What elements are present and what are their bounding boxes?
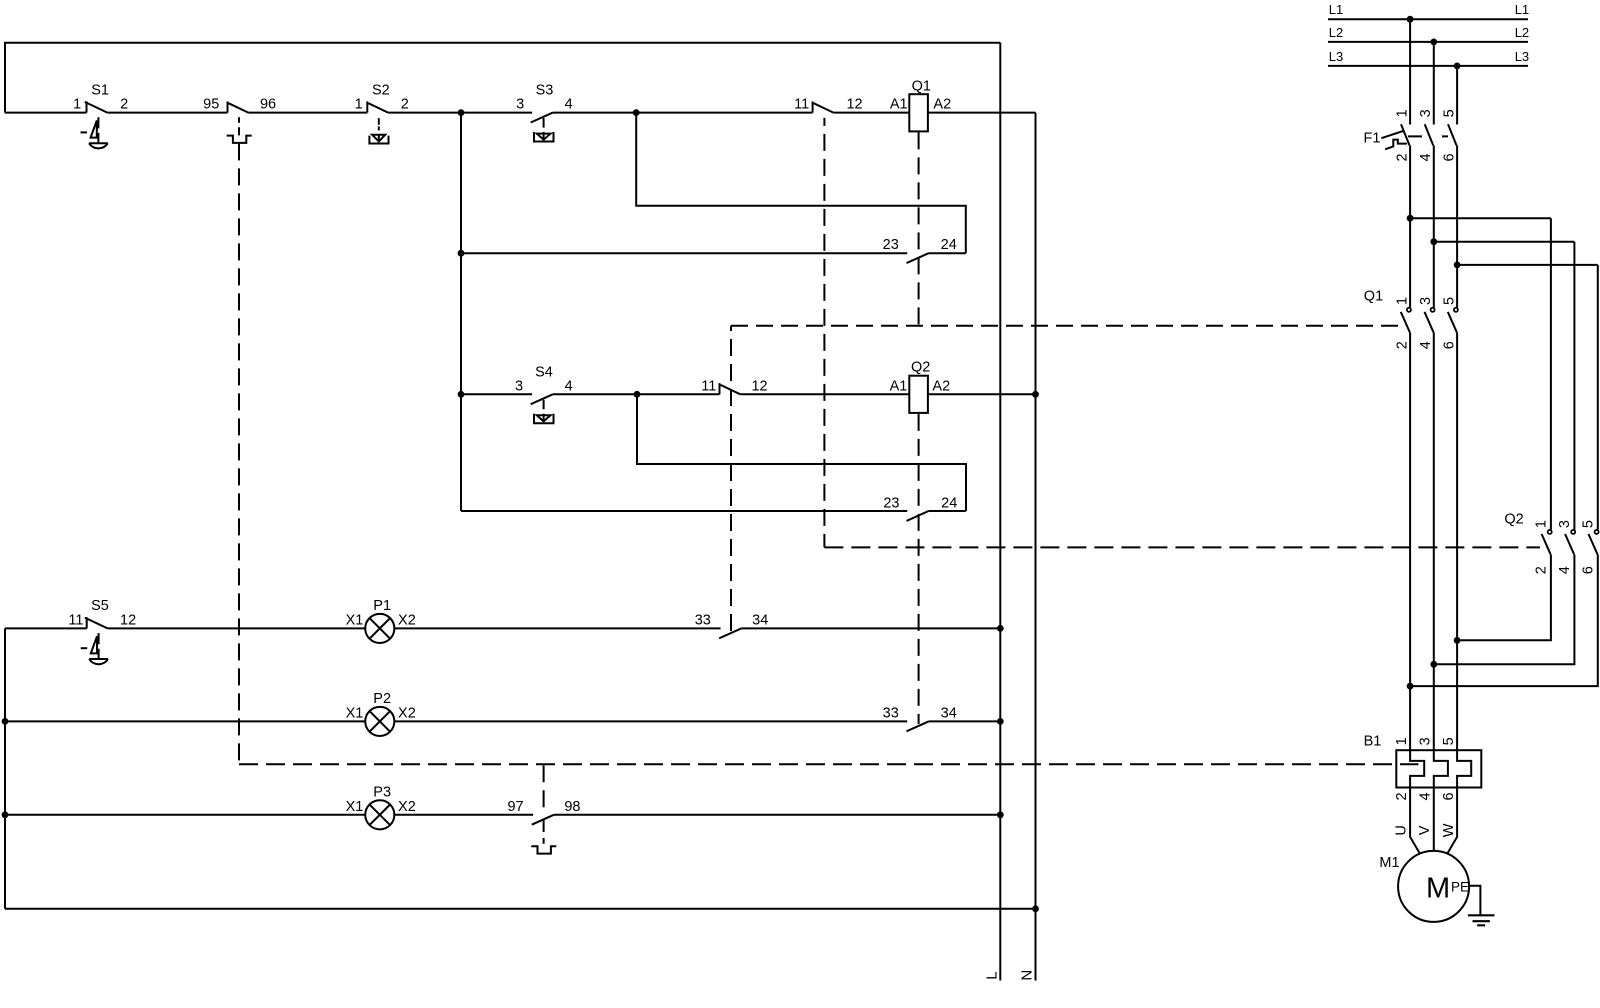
svg-text:X2: X2 [398, 612, 416, 628]
junction rail 1 / vertical bus [458, 109, 465, 116]
svg-text:4: 4 [565, 378, 573, 394]
wire N vertical conductor (control supply N) [1035, 113, 1037, 981]
svg-text:4: 4 [1418, 153, 1434, 161]
svg-text:6: 6 [1441, 153, 1457, 161]
svg-text:A1: A1 [890, 378, 908, 394]
svg-text:6: 6 [1442, 341, 1458, 349]
svg-text:3: 3 [1557, 520, 1573, 528]
svg-text:X2: X2 [398, 799, 416, 815]
wire bottom return rail to N [5, 908, 1036, 910]
svg-text:1: 1 [1395, 297, 1411, 305]
wire rail P2 from lamp to contact Q2 33-34 [394, 720, 907, 722]
svg-text:4: 4 [1557, 566, 1573, 574]
junction rail 1 / latch branch [633, 109, 640, 116]
svg-text:L2: L2 [1515, 25, 1529, 40]
junction bus / rail 2 [458, 391, 465, 398]
svg-text:11: 11 [701, 378, 716, 394]
svg-text:2: 2 [1394, 792, 1410, 800]
mechanical link dashes from contact 95-96 down to thermal symbol [238, 117, 240, 135]
contactor Q2 main contact pole 1 [1548, 530, 1552, 534]
svg-text:M: M [1426, 873, 1450, 905]
junction rail P1 / L conductor [997, 625, 1004, 632]
wire control rail 2 from bus to S4 [461, 393, 532, 395]
junction rail P3 / L conductor [997, 811, 1004, 818]
svg-text:11: 11 [794, 97, 809, 113]
wire from 23-24 blade to latch feed corner [929, 252, 966, 254]
wire L3 drop to breaker F1 pole 3 [1456, 66, 1458, 125]
wire Q1 pole 2 output down to overload B1 [1433, 332, 1435, 750]
junction reversing link phase swap on pole 1 [1407, 683, 1414, 690]
junction rail 2 / latch branch [634, 391, 641, 398]
svg-text:4: 4 [565, 97, 573, 113]
svg-text:2: 2 [401, 97, 409, 113]
wire Q2 pole 1 output crossing to Q1 phase 3 [1457, 555, 1551, 641]
overload relay B1 heater pole 1 [1410, 750, 1424, 787]
wire control rail 1 segment from left frame to S1 [5, 112, 87, 114]
wire motor lead V [1433, 788, 1435, 852]
svg-text:Q1: Q1 [912, 79, 931, 95]
junction branch to Q2 phase 3 [1454, 262, 1461, 269]
thermal overload symbol under 95-96 [227, 136, 252, 143]
svg-text:2: 2 [1534, 566, 1550, 574]
wire branch phase 3 across to Q2 feeder [1457, 264, 1598, 266]
contactor Q1 main contact pole 2 [1431, 308, 1435, 312]
svg-text:2: 2 [1394, 153, 1410, 161]
svg-text:23: 23 [883, 495, 899, 511]
junction reversing link on pole 3 [1454, 637, 1461, 644]
svg-text:33: 33 [883, 705, 899, 721]
svg-text:X2: X2 [398, 705, 416, 721]
contactor Q2 main contact pole 3 [1595, 530, 1599, 534]
emergency lamp switch S5 (NC contact 11-12) [86, 617, 88, 628]
wire Q2 latch feed from rail 2 junction down and across to contact 23-24 [637, 394, 966, 511]
auxiliary NO contact Q2 23-24 (self holding) [907, 511, 929, 521]
svg-text:1: 1 [1534, 520, 1550, 528]
svg-text:M1: M1 [1379, 855, 1399, 871]
wire rail 1 from S2 to junction at bus x=461 [388, 112, 532, 114]
junction rail P2 / L conductor [997, 718, 1004, 725]
breaker F1 thermal release symbol [1385, 140, 1407, 150]
svg-text:5: 5 [1441, 737, 1457, 745]
wire motor PE to earth [1469, 886, 1480, 916]
contactor coil Q2 [909, 376, 928, 413]
wire rail 2 from 11-12 to coil Q2 A1 [740, 393, 909, 395]
supply line L2 [1328, 41, 1528, 43]
wire Q2 pole 2 output to Q1 phase 2 [1434, 555, 1575, 665]
svg-text:3: 3 [515, 378, 523, 394]
svg-text:L1: L1 [1329, 2, 1343, 17]
svg-text:S5: S5 [91, 598, 109, 614]
wire motor lead W [1447, 788, 1457, 854]
wire Q1 pole 3 output down to overload B1 [1456, 332, 1458, 750]
svg-text:V: V [1417, 825, 1433, 835]
svg-text:S3: S3 [536, 83, 554, 99]
wire rail 1 from S1 to overload contact 95-96 [107, 112, 227, 114]
junction left bus / rail P2 [2, 718, 9, 725]
junction reversing link on pole 2 [1430, 661, 1437, 668]
svg-text:5: 5 [1442, 297, 1458, 305]
svg-text:98: 98 [564, 799, 580, 815]
junction bottom rail / N conductor [1032, 905, 1039, 912]
svg-text:33: 33 [695, 612, 711, 628]
svg-text:12: 12 [120, 612, 136, 628]
auxiliary NO contact Q1 23-24 (self holding) [907, 253, 929, 263]
svg-text:5: 5 [1441, 109, 1457, 117]
svg-text:2: 2 [1395, 341, 1411, 349]
svg-text:P3: P3 [373, 785, 391, 801]
junction L2 tap [1430, 39, 1437, 46]
junction L1 tap [1407, 16, 1414, 23]
wire Q1 pole 1 output down to overload B1 [1409, 332, 1411, 750]
svg-text:24: 24 [941, 495, 957, 511]
contactor Q2 main contact pole 2 [1571, 530, 1575, 534]
wire L1 drop to breaker F1 pole 1 [1409, 19, 1411, 124]
svg-text:PE: PE [1451, 880, 1469, 895]
svg-text:P2: P2 [373, 691, 391, 707]
junction L3 tap [1454, 63, 1461, 70]
mechanical link dashed from Q1 contacts across and down to 11-12 and 33-34 [731, 326, 1400, 631]
svg-text:4: 4 [1418, 341, 1434, 349]
overload relay B1 body [1396, 750, 1481, 787]
svg-text:5: 5 [1581, 520, 1597, 528]
svg-text:4: 4 [1418, 792, 1434, 800]
svg-text:X1: X1 [346, 799, 364, 815]
svg-text:1: 1 [355, 97, 363, 113]
svg-text:S4: S4 [535, 364, 553, 380]
wire rail P3 from 97-98 to L conductor [554, 814, 1001, 816]
svg-text:3: 3 [1418, 737, 1434, 745]
wire rail P1 from lamp to contact Q1 33-34 [394, 627, 720, 629]
overload relay B1 heater pole 3 [1457, 750, 1471, 787]
wire rail 2 from coil Q2 A2 to N conductor [928, 393, 1036, 395]
mechanical link dashed line from thermal symbol down and right to overload relay B1 [238, 143, 240, 764]
svg-text:1: 1 [1394, 737, 1410, 745]
svg-text:W: W [1441, 823, 1457, 837]
svg-text:L1: L1 [1515, 2, 1529, 17]
wire L vertical conductor (control supply L) [999, 43, 1001, 981]
svg-text:A2: A2 [932, 378, 950, 394]
wire rail P2 from 33-34 to L conductor [929, 720, 1001, 722]
auxiliary NO contact Q1 33-34 [719, 628, 741, 638]
mechanical link dashed from coil Q1 down to its contacts [918, 132, 920, 325]
wire rail 1 from 95-96 to stop button S2 [248, 112, 367, 114]
wire F1 pole 1 output down to Q1 pole 1 [1409, 145, 1411, 307]
svg-text:B1: B1 [1364, 733, 1382, 749]
supply line L1 [1328, 18, 1528, 20]
wire rail P3 from lamp to overload contact 97-98 [394, 814, 533, 816]
svg-text:Q1: Q1 [1364, 288, 1383, 304]
wire lamp rail P3 from left bus to lamp P3 [5, 814, 365, 816]
svg-text:S1: S1 [91, 83, 109, 99]
wire lamp rail P1 from left bus to S5 [5, 627, 87, 629]
svg-text:X1: X1 [346, 705, 364, 721]
svg-text:12: 12 [846, 97, 862, 113]
wire L phase feed: left frame from rail 1 up and across the top to the L down-conductor [5, 43, 1000, 113]
motor protection breaker F1 pole 1 blade [1401, 124, 1410, 145]
start pushbutton S4 (NO contact 3-4) [531, 394, 553, 404]
auxiliary NO contact Q2 33-34 [907, 721, 929, 731]
breaker F1 pole 3 blade [1448, 124, 1457, 145]
svg-text:L2: L2 [1329, 25, 1343, 40]
wire branch phase 1 across to Q2 feeder [1410, 217, 1551, 219]
svg-text:34: 34 [752, 612, 768, 628]
svg-text:S2: S2 [372, 83, 390, 99]
mechanical link dashes from B1 link line down through 97-98 to thermal symbol [543, 765, 545, 810]
wire lamp rail P2 from left bus to lamp P2 [5, 720, 365, 722]
svg-text:3: 3 [1418, 109, 1434, 117]
svg-text:6: 6 [1441, 792, 1457, 800]
svg-text:Q2: Q2 [1504, 511, 1523, 527]
interlock NC contact Q2 11-12 in Q1 coil circuit [812, 101, 814, 112]
junction branch to Q2 phase 1 [1407, 215, 1414, 222]
wire left bus for lamp rails [4, 628, 6, 908]
svg-text:12: 12 [751, 378, 767, 394]
svg-text:F1: F1 [1364, 130, 1381, 146]
indicator lamp P1 [365, 614, 394, 643]
contactor coil Q1 [909, 94, 928, 131]
contactor Q1 main contact pole 3 [1454, 308, 1458, 312]
junction bus / 23-24 line [458, 250, 465, 257]
junction left bus / rail P3 [2, 811, 9, 818]
svg-text:3: 3 [1418, 297, 1434, 305]
svg-text:Q2: Q2 [911, 360, 930, 376]
wire rail 1 from coil Q1 A2 to N conductor [928, 112, 1036, 114]
wire L2 drop to breaker F1 pole 2 [1433, 42, 1435, 125]
wire rail 2 from S4 to interlock contact Q1 11-12 [553, 393, 720, 395]
overload relay B1 NC contact 95-96 [227, 101, 229, 112]
wire motor lead U [1410, 788, 1420, 854]
svg-text:3: 3 [516, 97, 524, 113]
stop pushbutton S2 (NC contact 1-2) [366, 101, 368, 112]
wire line of Q2 auxiliary contact 23-24 from bus [461, 510, 907, 512]
motor M1 body [1398, 851, 1469, 922]
wire Q2 feeder phase 2 down to contact [1573, 242, 1575, 530]
junction rail 2 / N conductor [1032, 391, 1039, 398]
wire F1 pole 3 output down to Q1 pole 3 [1456, 145, 1458, 307]
svg-text:6: 6 [1581, 566, 1597, 574]
svg-text:24: 24 [941, 237, 957, 253]
wire vertical bus from rail 1 down to latch contact lines [460, 113, 462, 511]
breaker F1 mechanical link dashes [1408, 135, 1448, 137]
svg-text:L: L [983, 971, 1000, 979]
wire Q1 latch feed from rail 1 junction down and across to contact 23-24 [636, 113, 966, 254]
wire rail P1 from 33-34 to L conductor [741, 627, 1000, 629]
wire Q2 feeder phase 1 down to contact [1550, 218, 1552, 530]
breaker F1 actuator leader line [1381, 131, 1403, 138]
svg-text:1: 1 [73, 97, 81, 113]
overload relay B1 heater pole 2 [1434, 750, 1448, 787]
svg-text:A2: A2 [933, 97, 951, 113]
contactor Q1 main contact pole 1 [1407, 308, 1411, 312]
breaker F1 pole 2 blade [1425, 124, 1434, 145]
svg-text:34: 34 [941, 705, 957, 721]
mechanical link dashed from Q2 11-12 down to Q2 power contact link [823, 118, 825, 548]
wire rail 1 from S3 to interlock contact Q2 11-12 [553, 112, 813, 114]
emergency stop switch S1 (NC contact 1-2) [86, 101, 88, 112]
indicator lamp P2 [365, 707, 394, 736]
wire rail 1 from 11-12 to coil Q1 A1 [833, 112, 909, 114]
wire Q2 feeder phase 3 down to contact [1597, 265, 1599, 530]
wire from Q2 23-24 blade to latch feed corner [929, 510, 966, 512]
overload relay B1 NO contact 97-98 [532, 815, 554, 825]
wire Q2 pole 3 output crossing to Q1 phase 1 [1410, 555, 1598, 687]
thermal overload symbol under 97-98 [531, 846, 556, 853]
svg-text:96: 96 [260, 97, 276, 113]
svg-text:A1: A1 [890, 97, 908, 113]
svg-text:95: 95 [203, 97, 219, 113]
wire line of Q1 auxiliary contact 23-24 from bus [461, 252, 907, 254]
svg-text:X1: X1 [346, 612, 364, 628]
wire F1 pole 2 output down to Q1 pole 2 [1433, 145, 1435, 307]
svg-text:L3: L3 [1329, 49, 1343, 64]
wire rail P1 from S5 to lamp P1 [108, 627, 366, 629]
indicator lamp P3 [365, 800, 394, 829]
svg-text:P1: P1 [373, 598, 391, 614]
junction branch to Q2 phase 2 [1430, 238, 1437, 245]
svg-text:L3: L3 [1515, 49, 1529, 64]
mechanical link dashed from coil Q2 down through 23-24 to 33-34 [918, 414, 920, 724]
svg-text:11: 11 [68, 612, 83, 628]
svg-text:N: N [1019, 970, 1036, 981]
svg-text:1: 1 [1394, 109, 1410, 117]
start pushbutton S3 (NO contact 3-4) [531, 113, 553, 123]
wire branch phase 2 across to Q2 feeder [1434, 241, 1575, 243]
svg-text:2: 2 [120, 97, 128, 113]
svg-text:97: 97 [507, 799, 523, 815]
svg-text:U: U [1394, 825, 1410, 835]
interlock NC contact Q1 11-12 in Q2 coil circuit [719, 383, 721, 394]
earth ground symbol [1468, 915, 1495, 925]
supply line L3 [1328, 65, 1528, 67]
svg-text:23: 23 [883, 237, 899, 253]
